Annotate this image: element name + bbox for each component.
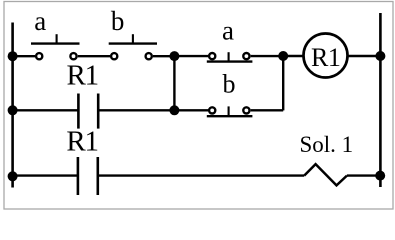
svg-text:b: b (111, 6, 125, 36)
svg-text:a: a (222, 16, 234, 46)
svg-text:Sol. 1: Sol. 1 (299, 132, 353, 157)
svg-text:R1: R1 (66, 126, 97, 158)
svg-text:R1: R1 (66, 60, 97, 92)
svg-text:b: b (223, 70, 236, 99)
svg-text:R1: R1 (311, 43, 340, 72)
svg-text:a: a (34, 6, 46, 36)
